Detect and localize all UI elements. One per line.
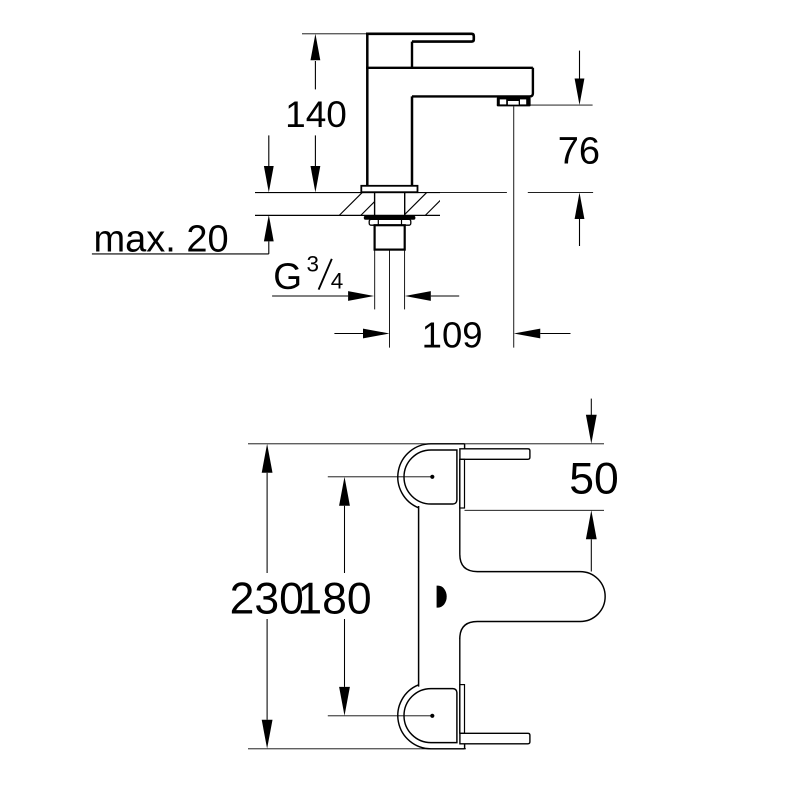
body right edge lower bbox=[459, 638, 461, 733]
deck top extension right (76 ref) bbox=[528, 192, 593, 194]
svg-text:230: 230 bbox=[230, 574, 304, 623]
dim max. 20 bbox=[92, 135, 274, 260]
wire top extension line bbox=[302, 33, 366, 35]
clamp inner cavity bbox=[404, 450, 457, 504]
spout tongue bbox=[460, 554, 605, 639]
deck top extension thin bbox=[440, 192, 507, 194]
76 ref line at outlet bbox=[497, 104, 593, 106]
clamp outer wall bbox=[398, 444, 465, 508]
svg-text:max. 20: max. 20 bbox=[94, 218, 229, 260]
body right edge bbox=[411, 96, 414, 185]
clamp strip bbox=[460, 459, 465, 508]
body left edge bbox=[418, 506, 420, 687]
deck top line bbox=[255, 192, 440, 194]
top clamp bbox=[328, 444, 530, 508]
outlet mark bbox=[437, 586, 447, 608]
clamp prong bar bbox=[460, 449, 530, 460]
threaded shank bbox=[375, 225, 405, 249]
body mid line / spout top bbox=[366, 67, 533, 69]
dim 50 bbox=[569, 399, 619, 572]
hatching bbox=[339, 193, 448, 216]
dim 76 bbox=[558, 51, 600, 246]
tap centreline bbox=[389, 250, 391, 348]
rubber seal bbox=[364, 216, 416, 220]
tap body top cap and lever bbox=[366, 34, 474, 42]
svg-text:140: 140 bbox=[285, 94, 347, 135]
dim 109 bbox=[334, 314, 570, 355]
svg-text:G: G bbox=[273, 256, 302, 297]
body right edge upper bbox=[459, 459, 461, 554]
dim G 3/4 bbox=[272, 252, 459, 301]
tap body left edge bbox=[366, 34, 369, 186]
dim 230 bbox=[230, 444, 304, 749]
svg-text:50: 50 bbox=[569, 454, 619, 503]
supply pipe left bbox=[374, 250, 376, 310]
50 reference line bbox=[465, 509, 605, 511]
bottom extension line bbox=[248, 748, 466, 750]
svg-text:3: 3 bbox=[307, 252, 320, 277]
clamp step bbox=[464, 444, 466, 449]
shank through deck bbox=[374, 192, 376, 216]
svg-text:4: 4 bbox=[331, 269, 344, 294]
spout right edge bbox=[530, 68, 533, 97]
deck bottom line bbox=[255, 214, 440, 216]
dim 140 bbox=[285, 34, 347, 193]
clamp centre tick bbox=[328, 476, 434, 478]
handle front edge bbox=[411, 42, 413, 68]
svg-text:180: 180 bbox=[297, 574, 371, 623]
svg-text:76: 76 bbox=[558, 130, 600, 172]
dim 180 bbox=[297, 477, 371, 716]
aerator block bbox=[497, 97, 531, 106]
top extension line bbox=[248, 443, 604, 445]
base flange bbox=[361, 186, 417, 192]
spout bottom bbox=[412, 95, 531, 97]
spout outlet centreline bbox=[513, 106, 515, 347]
svg-text:109: 109 bbox=[422, 314, 483, 355]
supply pipe right bbox=[404, 250, 406, 310]
mounting nut bbox=[369, 219, 411, 225]
bottom clamp (mirror) bbox=[328, 685, 530, 749]
